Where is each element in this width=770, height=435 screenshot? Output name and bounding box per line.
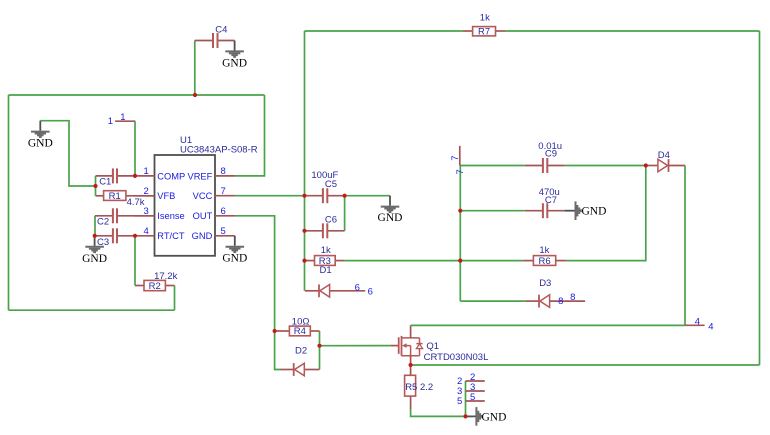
pin 7 VCC: [215, 195, 235, 197]
junction node C1-R1-GNDwire: [93, 184, 97, 188]
svg-text:COMP: COMP: [157, 171, 185, 181]
svg-text:GND: GND: [378, 212, 403, 224]
svg-text:4: 4: [695, 316, 700, 327]
resistor R5: [410, 365, 412, 375]
wire pin8 VREF to top net: [235, 95, 265, 176]
wire C4 drop to top net: [194, 41, 196, 96]
svg-text:D4: D4: [658, 150, 670, 161]
svg-text:7: 7: [455, 169, 466, 174]
svg-text:C2: C2: [97, 216, 109, 227]
wire C1 to R1 left vertical: [95, 176, 97, 196]
svg-text:5: 5: [457, 396, 462, 407]
wire R4/D2 left vertical: [275, 331, 281, 370]
capacitor C7: [525, 210, 543, 212]
svg-text:4: 4: [144, 226, 149, 237]
pin 3 Isense: [135, 215, 155, 217]
wire C7 row left: [460, 210, 524, 212]
ground GND1 top-left: [31, 121, 50, 137]
wire Q1 drain row: [411, 324, 685, 326]
wire R6 right riser to C9 node: [566, 166, 645, 261]
net label 7 stub: [459, 146, 461, 166]
resistor R4: [275, 330, 290, 332]
svg-text:OUT: OUT: [193, 211, 213, 221]
svg-text:Isense: Isense: [157, 211, 184, 221]
diode D2: [281, 369, 294, 371]
net label 5 stub: [466, 400, 485, 402]
junction node R3 left: [302, 259, 306, 263]
wire R2 left riser from pin4: [134, 236, 136, 286]
resistor R1: [96, 195, 104, 197]
resistor R3: [305, 260, 315, 262]
resistor R7: [463, 30, 473, 32]
svg-text:R5 2.2: R5 2.2: [405, 382, 433, 393]
svg-text:1k: 1k: [539, 245, 549, 256]
wire left loop vertical: [8, 95, 10, 310]
svg-text:1: 1: [120, 112, 125, 123]
wire R2 right riser: [174, 286, 176, 311]
svg-text:8: 8: [570, 292, 575, 303]
resistor R6: [523, 260, 533, 262]
pin 1 COMP: [135, 175, 155, 177]
wire R7 row right: [506, 30, 760, 32]
svg-text:6: 6: [368, 287, 373, 298]
wire gate row to Q1: [320, 345, 391, 347]
svg-text:4.7k: 4.7k: [127, 197, 145, 208]
wire right edge vertical: [759, 31, 761, 365]
junction node VCC-C5: [302, 194, 306, 198]
capacitor C2: [95, 215, 113, 217]
junction node pin4: [133, 234, 137, 238]
capacitor C9: [525, 165, 543, 167]
diode D1: [305, 290, 319, 292]
wire D4 output drop: [684, 166, 686, 326]
wire C9 row left: [460, 165, 524, 167]
junction node R6 row: [458, 259, 462, 263]
wire R5 bottom to GND node: [411, 409, 466, 416]
pin 2 VFB: [135, 195, 155, 197]
svg-text:Q1: Q1: [426, 341, 439, 352]
junction node C3-GND: [93, 234, 97, 238]
svg-text:5: 5: [221, 226, 226, 237]
ground GND7 at R5: [466, 407, 482, 426]
svg-text:8: 8: [558, 296, 563, 307]
svg-text:7: 7: [221, 186, 226, 197]
diode D3: [525, 300, 539, 302]
svg-text:1: 1: [108, 116, 113, 127]
capacitor C4: [195, 40, 213, 42]
pin 4 RT/CT: [135, 235, 155, 237]
svg-text:D2: D2: [295, 346, 307, 357]
svg-text:470u: 470u: [539, 187, 560, 198]
junction node gate: [317, 344, 321, 348]
svg-text:C6: C6: [325, 214, 337, 225]
svg-text:17.2k: 17.2k: [154, 271, 177, 282]
wire C9 row right: [565, 165, 646, 167]
svg-text:RT/CT: RT/CT: [157, 231, 185, 241]
svg-text:VFB: VFB: [157, 191, 175, 201]
svg-text:GND: GND: [582, 206, 607, 218]
transistor Q1 CRTD030N03L: [390, 345, 398, 347]
ground GND6 at C7: [565, 201, 581, 220]
svg-text:6: 6: [221, 206, 226, 217]
wire R7 row left: [305, 30, 463, 32]
svg-text:100uF: 100uF: [311, 170, 338, 181]
svg-text:CRTD030N03L: CRTD030N03L: [424, 352, 489, 363]
svg-text:VREF: VREF: [188, 171, 213, 181]
svg-text:1: 1: [144, 166, 149, 177]
net label 3 stub: [466, 390, 485, 392]
svg-text:5: 5: [470, 392, 475, 403]
capacitor C5: [305, 195, 323, 197]
svg-text:C4: C4: [215, 24, 227, 35]
ground GND5 at C5: [381, 196, 400, 212]
junction node top net / C4: [193, 93, 197, 97]
svg-text:VCC: VCC: [193, 191, 213, 201]
junction node C5-C6 right: [343, 194, 347, 198]
junction node Q1 source: [409, 363, 413, 367]
wire net-7 vertical x=460: [459, 166, 461, 302]
wire C6 right riser: [344, 196, 346, 231]
ground GND4 at pin5: [226, 236, 245, 252]
wire D3 row left: [460, 300, 525, 302]
wire Q1 source row: [411, 364, 760, 366]
wire from GND1 to C1/R1 node: [40, 121, 95, 186]
wire main vertical x=304 R7 to D1: [304, 31, 306, 291]
svg-text:UC3843AP-S08-R: UC3843AP-S08-R: [180, 145, 258, 156]
junction node R4 left: [273, 329, 277, 333]
svg-text:R1: R1: [109, 191, 121, 202]
junction node R5-GND: [463, 414, 467, 418]
net label 2 stub: [466, 380, 485, 382]
svg-text:R2: R2: [149, 281, 161, 292]
pin 8 VREF: [215, 175, 235, 177]
svg-text:GND: GND: [222, 253, 247, 265]
svg-text:1k: 1k: [321, 245, 331, 256]
wire D2 right riser: [319, 346, 321, 370]
wire net-1 stub drop to pin1: [134, 121, 136, 176]
svg-text:0.01u: 0.01u: [538, 141, 562, 152]
svg-text:GND: GND: [482, 411, 507, 423]
wire top horizontal net: [9, 94, 265, 96]
svg-text:D3: D3: [539, 278, 551, 289]
net label 4 stub: [685, 324, 705, 326]
svg-text:R4: R4: [294, 326, 306, 337]
svg-text:7: 7: [450, 155, 461, 160]
junction node C9-D4: [644, 163, 648, 167]
wire R3 to R6 row: [344, 260, 523, 262]
pin 5 GND: [215, 235, 235, 237]
capacitor C6: [305, 230, 323, 232]
svg-text:8: 8: [221, 166, 226, 177]
svg-text:GND: GND: [222, 58, 247, 70]
pin 6 OUT: [215, 215, 235, 217]
junction node C7 row: [458, 209, 462, 213]
svg-text:GND: GND: [82, 253, 107, 265]
wire C2 to C3 left vertical: [94, 216, 96, 236]
net label 1 stub: [115, 120, 135, 122]
junction node pin1: [133, 174, 137, 178]
svg-text:4: 4: [708, 322, 713, 333]
svg-text:C1: C1: [99, 176, 111, 187]
diode D4: [646, 165, 658, 167]
svg-text:D1: D1: [320, 265, 332, 276]
op-amp U1 UC3843AP-S08-R body: [155, 155, 216, 256]
svg-text:R7: R7: [478, 26, 490, 37]
wire C5 right to GND stub: [345, 195, 390, 197]
svg-text:1k: 1k: [480, 12, 490, 23]
wire pin7 VCC to C5 node: [235, 195, 305, 197]
capacitor C1: [96, 175, 113, 177]
ground GND3 at C3: [85, 236, 104, 252]
svg-text:10Ω: 10Ω: [292, 316, 310, 327]
ground GND2 at C4: [225, 41, 244, 57]
svg-text:6: 6: [355, 282, 360, 293]
svg-text:GND: GND: [192, 231, 213, 241]
wire pin6 OUT down to R4: [235, 216, 275, 331]
wire 2/3/5 stub vertical: [465, 381, 467, 416]
svg-text:GND: GND: [28, 137, 53, 149]
wire bottom loop horizontal: [9, 309, 175, 311]
capacitor C3: [95, 235, 113, 237]
resistor R2: [135, 285, 144, 287]
svg-text:R6: R6: [538, 256, 550, 267]
junction node C6 left: [302, 229, 306, 233]
wire R4 right bend: [319, 331, 321, 346]
